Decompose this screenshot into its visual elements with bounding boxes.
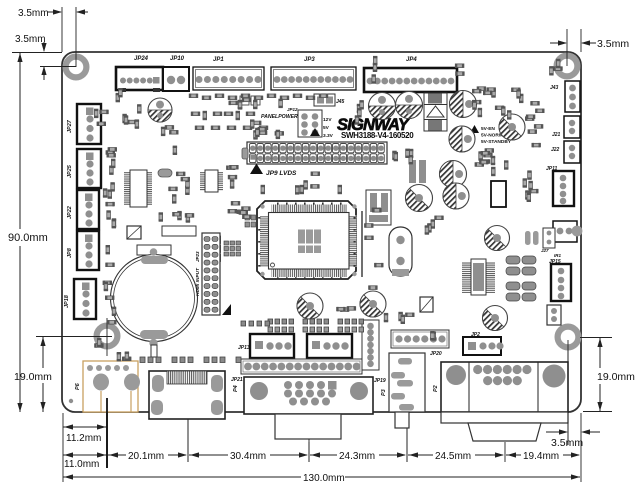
svg-text:3.5mm: 3.5mm [15, 34, 46, 45]
svg-text:19.4mm: 19.4mm [523, 451, 559, 462]
svg-text:JP25: JP25 [67, 164, 73, 178]
svg-text:3.5mm: 3.5mm [18, 8, 49, 19]
svg-text:3.5mm: 3.5mm [551, 437, 583, 449]
svg-text:JP22: JP22 [67, 206, 73, 219]
svg-text:30.4mm: 30.4mm [230, 451, 266, 462]
svg-text:JP23: JP23 [195, 251, 200, 262]
svg-text:12V: 12V [323, 117, 332, 123]
svg-text:P4: P4 [233, 385, 239, 392]
svg-text:90.0mm: 90.0mm [8, 232, 48, 244]
svg-text:JP8: JP8 [67, 247, 73, 258]
svg-text:J43: J43 [550, 85, 559, 91]
svg-text:JP13: JP13 [238, 345, 250, 351]
svg-text:JP21: JP21 [231, 377, 243, 383]
svg-text:11.0mm: 11.0mm [64, 459, 99, 470]
svg-text:J21: J21 [552, 132, 561, 138]
svg-text:JP19: JP19 [374, 378, 386, 384]
svg-text:JP27: JP27 [67, 119, 73, 133]
svg-text:JP4: JP4 [406, 57, 417, 63]
svg-text:5V-STANDBY: 5V-STANDBY [481, 139, 512, 145]
svg-text:JP24: JP24 [134, 56, 149, 62]
svg-text:P3: P3 [381, 389, 387, 396]
svg-text:3.5mm: 3.5mm [597, 38, 629, 50]
svg-text:19.0mm: 19.0mm [14, 371, 52, 383]
svg-text:24.3mm: 24.3mm [339, 451, 375, 462]
svg-text:J27: J27 [541, 248, 549, 253]
svg-text:20.1mm: 20.1mm [128, 451, 164, 462]
svg-text:JP1: JP1 [213, 57, 224, 63]
svg-text:130.0mm: 130.0mm [303, 473, 345, 484]
svg-text:JP3: JP3 [304, 57, 315, 63]
svg-text:J45: J45 [336, 99, 345, 105]
svg-text:24.5mm: 24.5mm [435, 451, 471, 462]
svg-text:P6: P6 [75, 382, 81, 390]
svg-text:JP12: JP12 [287, 107, 298, 112]
svg-text:19.0mm: 19.0mm [597, 371, 635, 383]
svg-text:PANELPOWER: PANELPOWER [261, 114, 298, 120]
svg-text:5V-EN: 5V-EN [481, 126, 495, 132]
svg-text:JP18: JP18 [64, 294, 70, 308]
svg-text:J22: J22 [551, 147, 560, 153]
svg-text:11.2mm: 11.2mm [66, 433, 101, 444]
svg-text:3.3V: 3.3V [323, 133, 334, 139]
svg-text:IR1: IR1 [554, 253, 562, 258]
svg-text:5V: 5V [323, 125, 330, 131]
svg-text:P2: P2 [433, 385, 439, 392]
svg-text:SWH3188-V4-160520: SWH3188-V4-160520 [341, 131, 414, 140]
svg-text:JP10: JP10 [170, 56, 185, 62]
svg-text:JP9 LVDS: JP9 LVDS [266, 170, 297, 177]
svg-text:JP20: JP20 [430, 351, 442, 357]
svg-text:HDMI INPUT: HDMI INPUT [195, 267, 201, 296]
